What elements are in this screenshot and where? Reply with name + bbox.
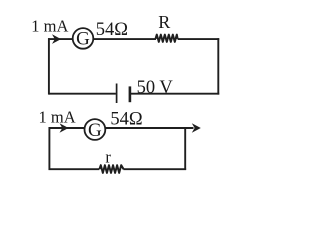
wire: shunt left vertical (48, 127, 50, 170)
current arrow 1 mA into G (top circuit) (52, 34, 61, 44)
wire: top circuit left vertical (48, 38, 50, 94)
svg-text:1 mA: 1 mA (39, 107, 76, 126)
wire: top circuit bottom-left (battery to corner) (49, 93, 116, 95)
galvanometer U2 circle (85, 119, 106, 140)
svg-text:54Ω: 54Ω (110, 109, 142, 129)
svg-text:54Ω: 54Ω (96, 20, 128, 40)
battery B1 negative plate (short thick) (129, 86, 132, 102)
wire: shunt right vertical (184, 127, 186, 170)
svg-text:r: r (105, 148, 111, 167)
resistor r zigzag (99, 165, 123, 173)
output arrowhead (bottom circuit) (192, 123, 201, 133)
wire: top circuit right vertical (217, 38, 219, 94)
galvanometer U1 circle (73, 28, 94, 49)
wire: bottom-right corner to battery negative (130, 93, 219, 95)
wire: galvanometer to output arrow (105, 127, 193, 129)
svg-text:1 mA: 1 mA (31, 16, 68, 35)
resistor R zigzag (156, 35, 178, 42)
wire: resistor R to top-right corner (178, 38, 220, 40)
svg-text:50 V: 50 V (137, 78, 174, 98)
wire: galvanometer to resistor R (93, 38, 156, 40)
wire: top-left corner to galvanometer G (48, 38, 74, 40)
battery B1 positive plate (long) (116, 84, 118, 104)
current arrow 1 mA into G (bottom circuit) (60, 123, 69, 133)
wire: resistor r to shunt bottom-right (123, 168, 186, 170)
wire: shunt bottom-left to resistor r (49, 168, 100, 170)
svg-text:G: G (88, 120, 102, 141)
svg-text:G: G (76, 29, 90, 50)
svg-text:R: R (158, 12, 170, 32)
wire: bottom circuit input to galvanometer (49, 127, 87, 129)
